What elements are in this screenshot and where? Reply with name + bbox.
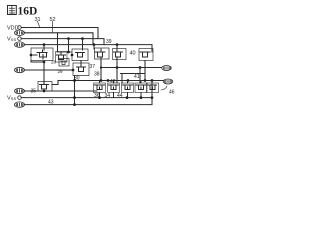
transistor Q6 (boxed) [139, 49, 153, 81]
svg-text:29: 29 [58, 69, 64, 74]
svg-text:38: 38 [94, 72, 100, 78]
node dot mid x117 [116, 66, 119, 69]
small box 28 [59, 59, 69, 67]
wire lower bus 1 [24, 90, 97, 92]
node dot x73 y70 [72, 69, 75, 72]
wire gate drop x44 to lower row [43, 62, 45, 83]
node dot x141 y97.6 [140, 96, 143, 99]
transistor Q2 (boxed) [56, 51, 73, 62]
svg-text:46: 46 [169, 90, 175, 96]
wire to output 27 [58, 80, 163, 82]
node dot x44 y62 [43, 61, 46, 64]
svg-text:28: 28 [51, 60, 57, 65]
node dot x108 y80.5 [107, 79, 110, 82]
transistor Q9 [94, 79, 106, 97]
terminal phi-4 [15, 88, 25, 93]
node dot on bus2 x94 [93, 43, 96, 46]
svg-text:16D: 16D [18, 6, 38, 18]
wire mid output bus [101, 61, 162, 81]
wire tap from Q1 down [31, 61, 44, 63]
node dot x101 y67.5 [100, 66, 102, 68]
title figure label 圖16D [8, 6, 38, 18]
transistor Q7 (boxed, middle) [73, 61, 89, 76]
wire drop from Q7 to bottom bus [74, 76, 76, 105]
node dot on Vss bus x82.5 [81, 37, 84, 40]
svg-text:SS: SS [11, 37, 17, 42]
wire gate feed x57.5 from clock bus1 [57, 33, 59, 52]
wire phi-3 row [24, 69, 73, 71]
transistor Q12 [135, 81, 147, 98]
label 52 with leader [50, 17, 56, 32]
terminal output 27 [163, 79, 173, 84]
wire drop x152 to lower bus [151, 81, 153, 98]
node dot x75 y104.6 [73, 103, 76, 106]
node dot x74.5 y80.5 [73, 79, 76, 82]
node dot on bus2 x117 [116, 43, 119, 46]
node dot mid x140 [139, 66, 142, 69]
terminal phi-3 [15, 67, 25, 72]
wire gate feed x68.5 [68, 39, 70, 52]
svg-text:SS: SS [11, 96, 17, 101]
svg-text:43: 43 [48, 100, 54, 106]
wire gate feed x117 [116, 45, 118, 48]
wire gate feed x82.5 [82, 39, 84, 50]
node dot x99.5 y97.6 [98, 96, 101, 99]
wire VDD bus [21, 28, 98, 39]
node dot x128 y80.5 [127, 79, 130, 82]
wire gate feed x94 [93, 45, 95, 49]
wire drop x122 [121, 74, 123, 84]
transistor Q11 [122, 81, 134, 98]
node dot x152 y80.5 [151, 79, 154, 82]
terminal phi-1 [15, 30, 25, 35]
svg-text:37: 37 [90, 64, 96, 70]
wire clock bus 1 [24, 33, 93, 45]
terminal output 26 [162, 66, 172, 71]
svg-text:42: 42 [110, 79, 116, 85]
node dot x127 y97.6 [126, 96, 129, 99]
terminal phi-2 [15, 42, 25, 47]
wire lower bus 3 [24, 98, 152, 105]
wire drop x117 [116, 57, 118, 83]
wire clock bus 2 [24, 45, 152, 49]
transistor Q4 (boxed) [95, 48, 110, 61]
transistor Q5 (boxed) [113, 49, 127, 60]
node dot on Vss bus x68.5 [67, 37, 70, 40]
wire Vss bus [21, 39, 104, 45]
terminal VDD [7, 26, 21, 32]
terminal Vss upper [7, 37, 21, 43]
node dot x44 y91 [43, 90, 46, 93]
wire lower bus 2 [21, 97, 152, 99]
wire mid second bus [121, 73, 146, 75]
transistor Q8 (lower-left, boxed) [38, 82, 52, 92]
terminal phi-5 [15, 102, 25, 107]
transistor Q10 [108, 81, 120, 98]
svg-text:40: 40 [130, 51, 136, 57]
node dot x74.5 y97.6 [73, 96, 76, 99]
wire drop x140 [139, 68, 141, 84]
wire gate feed x44 [43, 45, 45, 50]
transistor Q1 (boxed, top-left) [30, 48, 53, 61]
node dot x145 y80.5 [144, 79, 147, 82]
transistor Q13 [147, 83, 159, 93]
svg-text:41: 41 [134, 74, 140, 80]
label 31 with leader [35, 17, 41, 27]
terminal Vss lower [7, 96, 21, 102]
wire Q8 output to mid bus [52, 81, 58, 85]
transistor Q3 (boxed) [71, 49, 88, 61]
svg-text:39: 39 [106, 39, 112, 45]
node dot on bus2 x44 [43, 43, 46, 46]
node dot x152 y97.6 [151, 96, 154, 99]
